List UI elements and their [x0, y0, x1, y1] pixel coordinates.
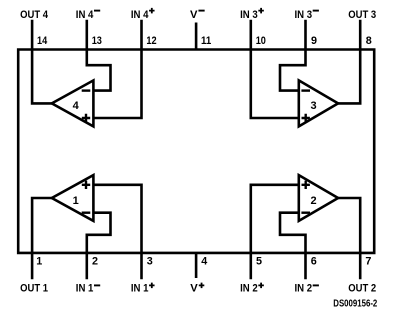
- svg-text:IN 2: IN 2: [295, 283, 313, 295]
- pin 4 lead (V+): [195, 252, 198, 278]
- wire op-amp 1 output to pin 1: [32, 198, 53, 279]
- svg-text:14: 14: [37, 35, 47, 47]
- pin label IN 4+ superscript plus: [149, 8, 155, 14]
- wire pin 14 to op-amp 4 output: [32, 20, 53, 104]
- svg-text:2: 2: [311, 195, 317, 207]
- pin label IN 4- superscript minus: [94, 10, 100, 12]
- wire op-amp 2 inverting input to pin 6: [280, 213, 306, 280]
- pin label V+ superscript plus: [199, 283, 205, 289]
- op-amp 3 non-inverting input plus sign: [302, 114, 310, 122]
- pin label IN 1- superscript minus: [94, 284, 100, 286]
- svg-text:3: 3: [311, 100, 317, 112]
- svg-text:7: 7: [365, 256, 371, 268]
- pin label IN 3- superscript minus: [313, 10, 319, 12]
- pin label IN 2+ superscript plus: [258, 283, 264, 289]
- svg-text:IN 1: IN 1: [76, 283, 94, 295]
- svg-text:8: 8: [366, 35, 372, 47]
- svg-text:4: 4: [201, 256, 207, 268]
- svg-text:IN 2: IN 2: [240, 283, 258, 295]
- svg-text:OUT 1: OUT 1: [20, 283, 48, 295]
- svg-text:10: 10: [256, 35, 266, 47]
- svg-text:IN 3: IN 3: [240, 9, 258, 21]
- pin label IN 2- superscript minus: [313, 284, 319, 286]
- svg-text:DS009156-2: DS009156-2: [333, 298, 377, 310]
- svg-text:4: 4: [73, 100, 80, 112]
- op-amp 3 triangle: [299, 80, 338, 126]
- pin label IN 1+ superscript plus: [149, 283, 155, 289]
- wire pin 13 to op-amp 4 inverting input: [87, 20, 111, 91]
- pin label V- superscript minus: [198, 10, 204, 12]
- wire pin 8 to op-amp 3 output: [337, 20, 360, 104]
- op-amp 1 inverting input minus sign: [82, 212, 91, 214]
- op-amp 2 triangle: [299, 175, 338, 221]
- svg-text:IN 4: IN 4: [76, 9, 94, 21]
- op-amp 4 inverting input minus sign: [82, 89, 91, 91]
- op-amp 2 non-inverting input plus sign: [302, 181, 310, 189]
- svg-text:9: 9: [311, 35, 317, 47]
- op-amp 1 triangle: [52, 175, 94, 221]
- wire op-amp 1 non-inverting input to pin 3: [93, 185, 141, 279]
- pin 11 lead (V-): [195, 23, 198, 51]
- svg-text:11: 11: [201, 35, 211, 47]
- svg-text:OUT 4: OUT 4: [20, 9, 49, 21]
- op-amp 4 non-inverting input plus sign: [82, 114, 90, 122]
- op-amp 4 triangle: [52, 80, 94, 126]
- wire op-amp 1 inverting input to pin 2: [87, 213, 111, 280]
- svg-text:5: 5: [256, 256, 262, 268]
- wire pin 12 to op-amp 4 non-inverting input: [93, 20, 141, 118]
- svg-text:2: 2: [92, 256, 98, 268]
- op-amp 1 non-inverting input plus sign: [82, 181, 90, 189]
- svg-text:1: 1: [36, 256, 42, 268]
- svg-text:OUT 3: OUT 3: [348, 9, 376, 21]
- op-amp 3 inverting input minus sign: [301, 89, 310, 91]
- op-amp 2 inverting input minus sign: [301, 212, 310, 214]
- svg-text:IN 4: IN 4: [131, 9, 149, 21]
- svg-text:V: V: [190, 283, 198, 295]
- svg-text:OUT 2: OUT 2: [348, 283, 376, 295]
- wire pin 10 to op-amp 3 non-inverting input: [251, 20, 299, 118]
- svg-text:13: 13: [92, 35, 102, 47]
- svg-text:IN 3: IN 3: [295, 9, 313, 21]
- pin label IN 3+ superscript plus: [258, 8, 264, 14]
- svg-text:1: 1: [73, 195, 79, 207]
- wire op-amp 2 non-inverting input to pin 5: [251, 185, 299, 279]
- svg-text:12: 12: [146, 35, 156, 47]
- svg-text:IN 1: IN 1: [131, 283, 149, 295]
- wire op-amp 2 output to pin 7: [337, 198, 360, 279]
- wire pin 9 to op-amp 3 inverting input: [280, 20, 306, 91]
- IC package outline (14-pin DIP body): [18, 50, 374, 253]
- svg-text:6: 6: [311, 256, 317, 268]
- svg-text:V: V: [190, 9, 198, 21]
- svg-text:3: 3: [147, 256, 153, 268]
